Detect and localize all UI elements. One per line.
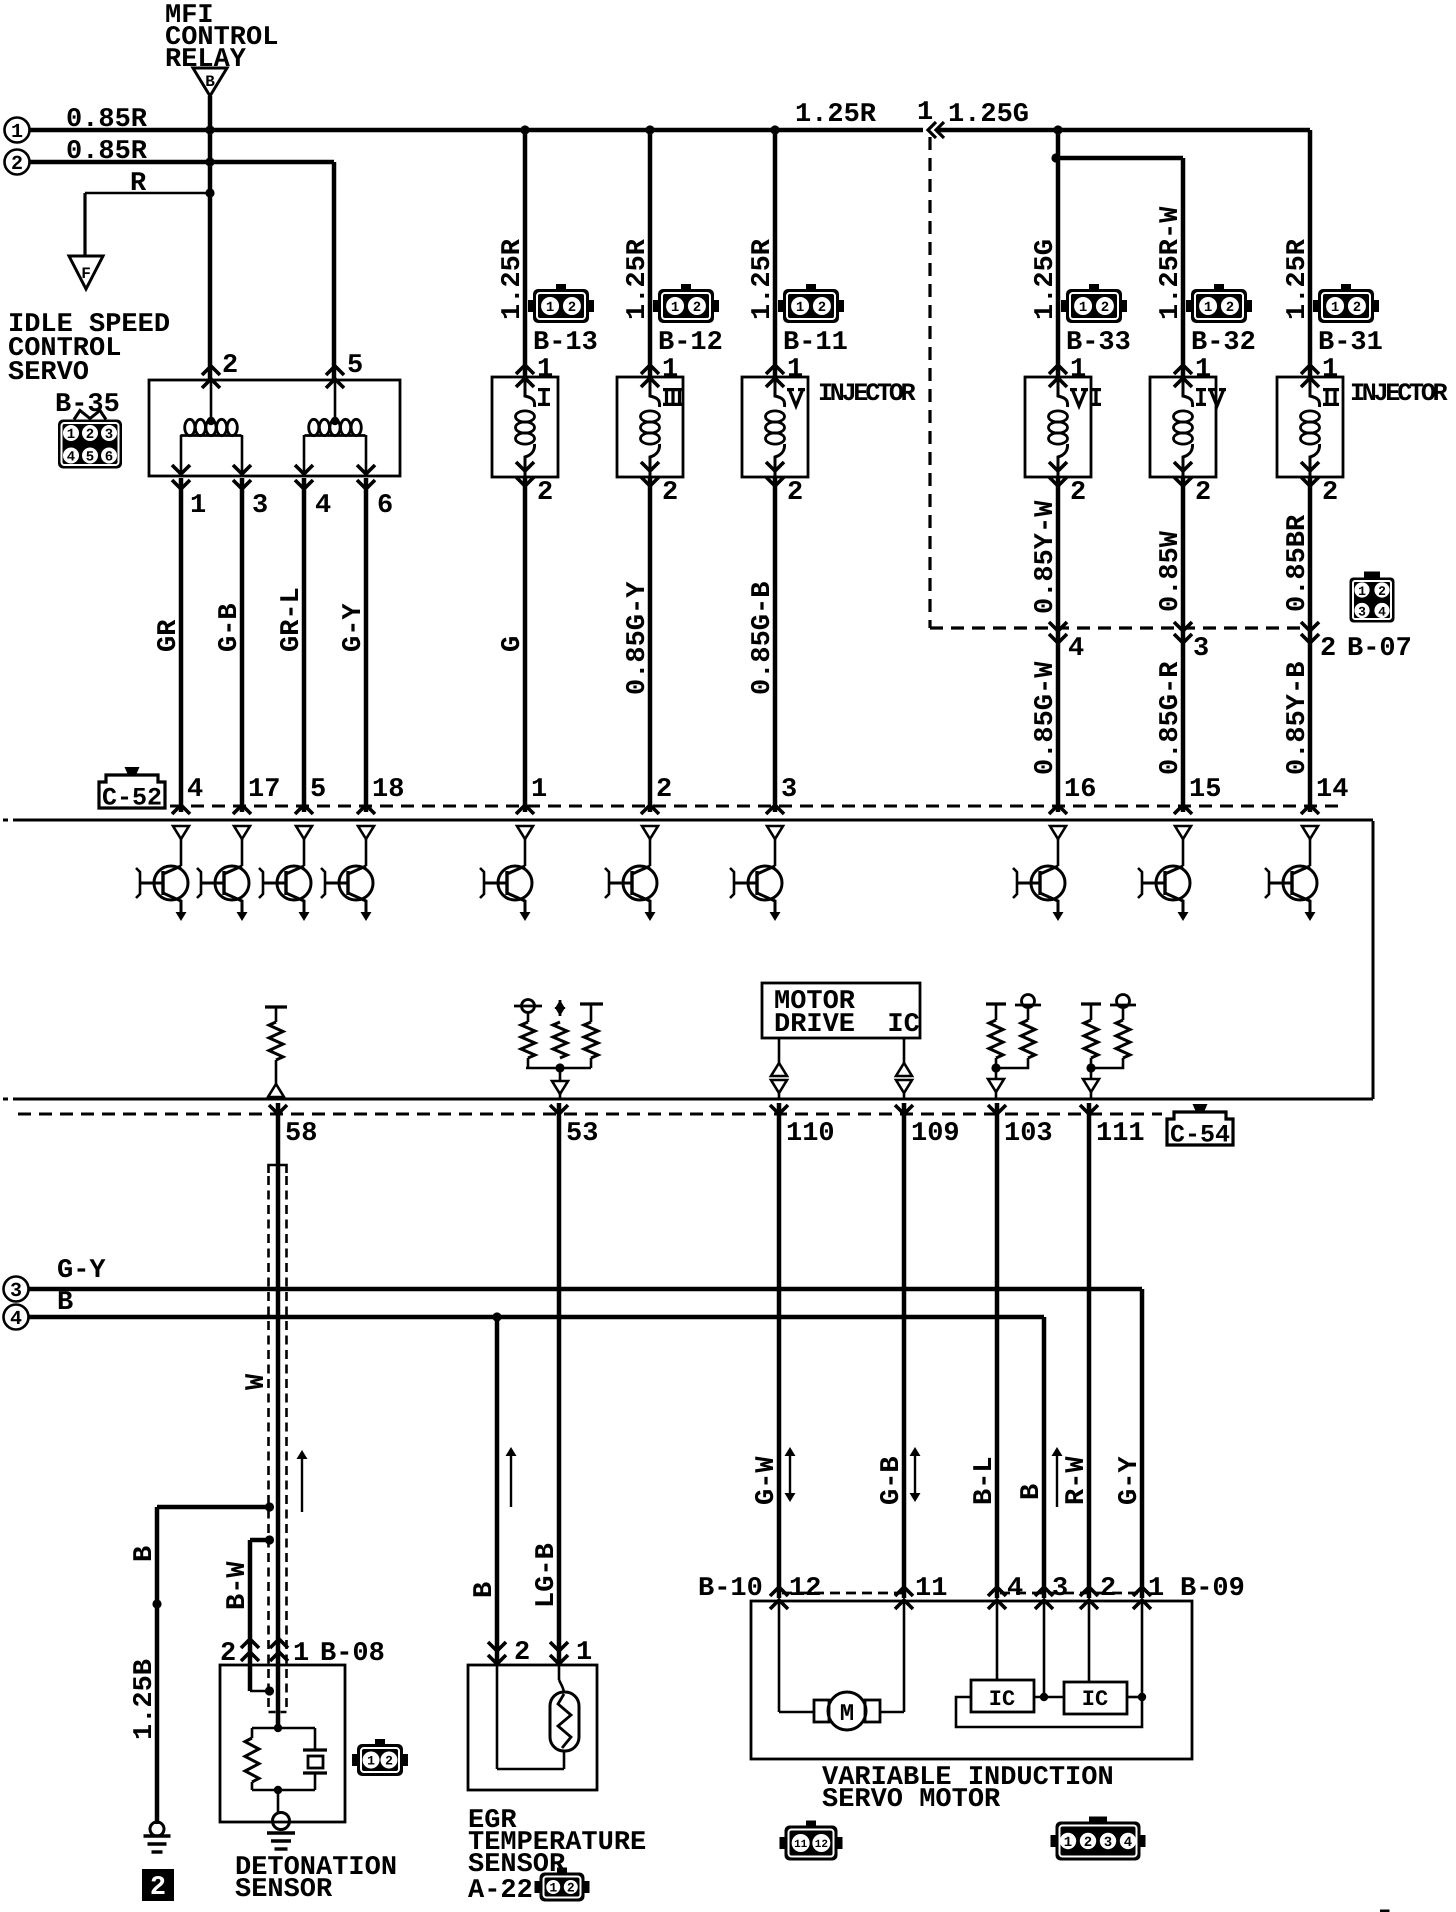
svg-text:1: 1 [537, 355, 553, 385]
svg-text:1: 1 [546, 300, 554, 316]
svg-text:B: B [470, 1582, 500, 1598]
svg-text:2: 2 [86, 427, 94, 443]
svg-text:1.25R: 1.25R [1283, 238, 1313, 320]
svg-text:14: 14 [1316, 775, 1348, 805]
svg-text:B: B [1017, 1484, 1047, 1500]
svg-text:6: 6 [105, 450, 113, 466]
svg-text:1.25G: 1.25G [948, 100, 1029, 130]
svg-text:18: 18 [372, 775, 404, 805]
svg-text:LG-B: LG-B [532, 1543, 562, 1608]
svg-text:2: 2 [818, 300, 826, 316]
svg-text:0.85G-Y: 0.85G-Y [623, 581, 653, 695]
svg-text:3: 3 [252, 491, 268, 521]
svg-text:1: 1 [576, 1638, 592, 1668]
svg-text:IC: IC [989, 1687, 1015, 1712]
svg-text:B: B [205, 73, 215, 91]
svg-text:109: 109 [911, 1119, 960, 1149]
svg-text:2: 2 [1070, 478, 1086, 508]
svg-text:M: M [840, 1701, 854, 1728]
svg-text:RELAY: RELAY [165, 45, 247, 75]
svg-text:0.85G-B: 0.85G-B [748, 582, 778, 695]
svg-text:F: F [81, 265, 91, 283]
svg-text:11: 11 [794, 1839, 808, 1851]
svg-text:103: 103 [1004, 1119, 1053, 1149]
svg-text:58: 58 [285, 1119, 317, 1149]
svg-text:1: 1 [1195, 355, 1211, 385]
svg-text:4: 4 [315, 491, 331, 521]
svg-text:1.25G: 1.25G [1031, 239, 1061, 320]
svg-text:GR: GR [154, 619, 184, 652]
svg-text:2: 2 [1226, 300, 1234, 316]
svg-text:5: 5 [347, 351, 363, 381]
svg-text:1: 1 [1322, 355, 1338, 385]
svg-text:2: 2 [514, 1638, 530, 1668]
svg-text:B-W: B-W [223, 1561, 253, 1610]
svg-text:4: 4 [1068, 634, 1084, 664]
svg-text:4: 4 [1124, 1835, 1132, 1851]
svg-text:G-Y: G-Y [339, 603, 369, 652]
svg-text:11: 11 [915, 1574, 947, 1604]
svg-text:C-52: C-52 [102, 784, 162, 813]
svg-text:3: 3 [1358, 604, 1366, 619]
svg-text:B-10: B-10 [698, 1574, 763, 1604]
svg-text:1: 1 [190, 491, 206, 521]
svg-text:3: 3 [1052, 1574, 1068, 1604]
svg-text:2: 2 [1100, 1574, 1116, 1604]
svg-text:2: 2 [385, 1754, 393, 1769]
svg-text:R-W: R-W [1062, 1456, 1092, 1505]
svg-text:2: 2 [1320, 634, 1336, 664]
svg-text:4: 4 [1007, 1574, 1023, 1604]
svg-text:12: 12 [815, 1839, 828, 1851]
svg-text:B: B [57, 1288, 73, 1318]
svg-text:C-54: C-54 [1170, 1121, 1230, 1150]
svg-text:SENSOR: SENSOR [235, 1875, 333, 1905]
svg-text:6: 6 [377, 491, 393, 521]
svg-text:0.85G-W: 0.85G-W [1031, 661, 1061, 775]
svg-text:1.25R: 1.25R [498, 238, 528, 320]
svg-text:5: 5 [310, 775, 326, 805]
svg-text:0.85W: 0.85W [1156, 530, 1186, 612]
svg-text:2: 2 [150, 1873, 166, 1903]
svg-text:DRIVE IC: DRIVE IC [774, 1010, 920, 1040]
svg-text:12: 12 [789, 1574, 821, 1604]
svg-text:0.85BR: 0.85BR [1283, 514, 1313, 612]
svg-text:G: G [498, 636, 528, 652]
svg-text:1.25R-W: 1.25R-W [1156, 206, 1186, 320]
svg-text:1: 1 [787, 355, 803, 385]
svg-text:INJECTOR: INJECTOR [818, 379, 916, 408]
svg-text:B-11: B-11 [783, 328, 848, 358]
svg-text:G-Y: G-Y [1115, 1456, 1145, 1505]
svg-text:INJECTOR: INJECTOR [1350, 379, 1448, 408]
svg-text:B-L: B-L [970, 1456, 1000, 1505]
svg-text:1: 1 [1070, 355, 1086, 385]
svg-text:1: 1 [11, 121, 23, 144]
svg-text:B-32: B-32 [1191, 328, 1256, 358]
svg-text:1: 1 [531, 775, 547, 805]
svg-text:3: 3 [10, 1280, 22, 1303]
svg-text:1: 1 [917, 98, 933, 128]
svg-text:W: W [242, 1373, 272, 1390]
svg-text:A-22: A-22 [468, 1876, 533, 1906]
svg-text:G-B: G-B [877, 1456, 907, 1505]
svg-text:1: 1 [1079, 300, 1087, 316]
svg-text:2: 2 [693, 300, 701, 316]
svg-text:G-W: G-W [752, 1456, 782, 1505]
svg-text:IC: IC [1082, 1687, 1108, 1712]
svg-text:2: 2 [1322, 478, 1338, 508]
svg-text:1: 1 [549, 1881, 557, 1896]
svg-text:4: 4 [187, 775, 203, 805]
svg-text:3: 3 [105, 427, 113, 443]
svg-text:1: 1 [1204, 300, 1212, 316]
svg-text:B-13: B-13 [533, 328, 598, 358]
svg-text:R: R [130, 169, 147, 199]
svg-text:1: 1 [67, 427, 75, 443]
svg-text:4: 4 [1378, 604, 1386, 619]
svg-text:B: B [130, 1546, 160, 1562]
svg-text:2: 2 [568, 300, 576, 316]
svg-text:1: 1 [1358, 584, 1366, 599]
svg-text:2: 2 [1101, 300, 1109, 316]
svg-text:B-12: B-12 [658, 328, 723, 358]
svg-text:2: 2 [537, 478, 553, 508]
svg-text:17: 17 [248, 775, 280, 805]
svg-text:1: 1 [662, 355, 678, 385]
svg-text:0.85Y-B: 0.85Y-B [1283, 662, 1313, 775]
svg-text:16: 16 [1064, 775, 1096, 805]
svg-text:3: 3 [781, 775, 797, 805]
svg-text:1.25B: 1.25B [130, 1659, 160, 1740]
svg-text:SERVO: SERVO [8, 358, 89, 388]
svg-text:1: 1 [1148, 1574, 1164, 1604]
svg-text:2: 2 [1084, 1835, 1092, 1851]
svg-text:2: 2 [656, 775, 672, 805]
svg-text:SERVO MOTOR: SERVO MOTOR [822, 1785, 1001, 1815]
svg-text:1: 1 [367, 1754, 375, 1769]
svg-text:4: 4 [67, 450, 75, 466]
svg-text:G-Y: G-Y [57, 1256, 106, 1286]
svg-text:2: 2 [1195, 478, 1211, 508]
svg-text:4: 4 [10, 1308, 22, 1331]
svg-text:2: 2 [1353, 300, 1361, 316]
svg-text:1: 1 [671, 300, 679, 316]
svg-text:3: 3 [1193, 634, 1209, 664]
svg-text:2: 2 [222, 351, 238, 381]
svg-text:2: 2 [787, 478, 803, 508]
svg-text:2: 2 [662, 478, 678, 508]
svg-text:1: 1 [1064, 1835, 1072, 1851]
svg-text:2: 2 [567, 1881, 575, 1896]
svg-text:53: 53 [566, 1119, 598, 1149]
svg-text:3: 3 [1104, 1835, 1112, 1851]
svg-text:111: 111 [1096, 1119, 1145, 1149]
svg-text:1.25R: 1.25R [748, 238, 778, 320]
svg-text:GR-L: GR-L [277, 587, 307, 652]
svg-text:B-07: B-07 [1347, 634, 1412, 664]
svg-text:1.25R: 1.25R [623, 238, 653, 320]
svg-text:2: 2 [1378, 584, 1386, 599]
svg-text:B-33: B-33 [1066, 328, 1131, 358]
svg-text:B-09: B-09 [1180, 1574, 1245, 1604]
svg-text:G-B: G-B [215, 603, 245, 652]
svg-text:2: 2 [11, 153, 23, 176]
svg-text:1.25R: 1.25R [795, 100, 877, 130]
svg-text:1: 1 [1331, 300, 1339, 316]
svg-text:0.85G-R: 0.85G-R [1156, 661, 1186, 775]
svg-text:B-31: B-31 [1318, 328, 1383, 358]
svg-text:0.85Y-W: 0.85Y-W [1031, 500, 1061, 614]
svg-text:15: 15 [1189, 775, 1221, 805]
svg-text:110: 110 [786, 1119, 835, 1149]
svg-text:5: 5 [86, 450, 94, 466]
svg-text:1: 1 [796, 300, 804, 316]
